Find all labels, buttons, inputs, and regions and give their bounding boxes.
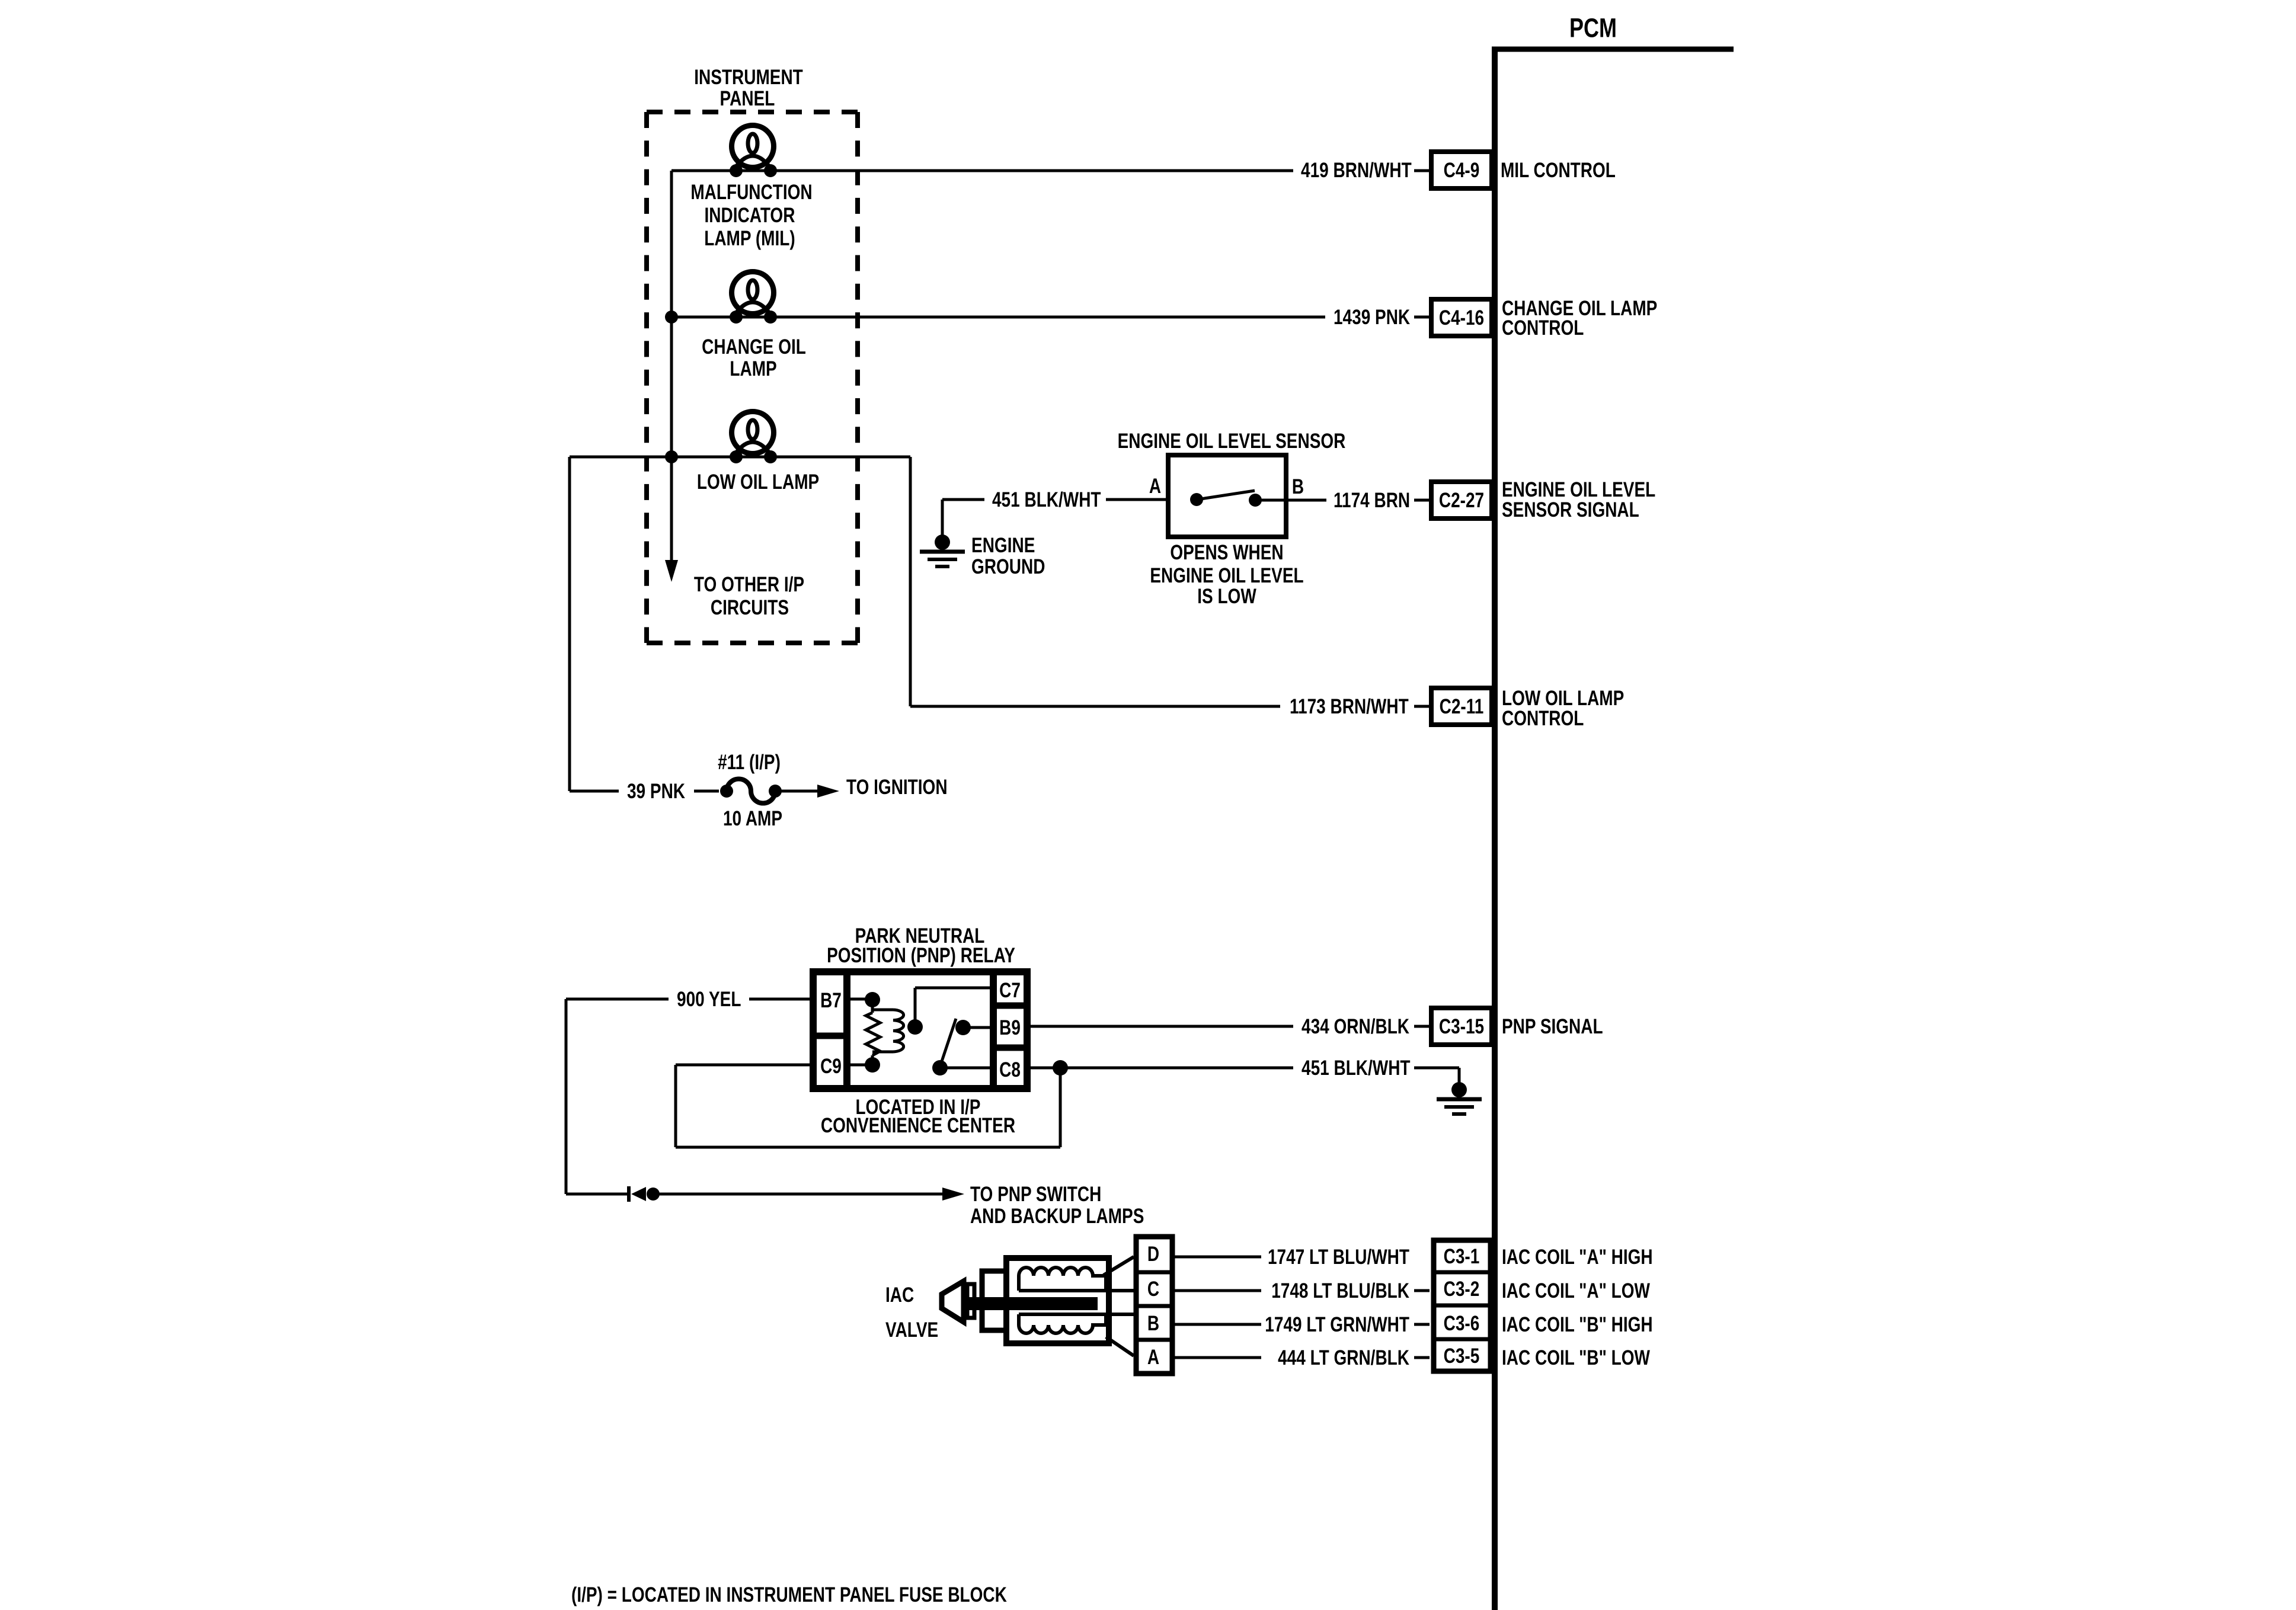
svg-text:C4-16: C4-16 [1439,306,1484,329]
svg-text:CONTROL: CONTROL [1502,316,1584,340]
svg-text:419 BRN/WHT: 419 BRN/WHT [1301,158,1412,182]
svg-text:TO OTHER I/P: TO OTHER I/P [694,572,804,596]
IAC valve stem [968,1297,1098,1310]
svg-text:IAC COIL "B" LOW: IAC COIL "B" LOW [1502,1346,1650,1369]
wire 39 PNK feed [568,457,571,791]
svg-text:C3-2: C3-2 [1444,1277,1480,1301]
wire 1748 LT BLU/BLK [1175,1289,1261,1292]
svg-text:C3-15: C3-15 [1439,1014,1484,1038]
wire C9 coil return loop [676,1064,813,1067]
svg-text:CIRCUITS: CIRCUITS [711,596,789,619]
svg-text:A: A [1149,474,1161,498]
wire 900 YEL [566,998,669,1001]
connector column C3 [1434,1240,1491,1371]
connector C3-15 [1431,1008,1492,1045]
lamp LOW OIL [732,412,774,454]
IAC valve pintle cone [942,1281,964,1322]
svg-text:B: B [1292,475,1304,498]
svg-text:LAMP: LAMP [730,357,776,380]
svg-text:900 YEL: 900 YEL [677,987,741,1011]
wire 444 LT GRN/BLK [1175,1356,1261,1359]
svg-text:IAC COIL "A" LOW: IAC COIL "A" LOW [1502,1279,1650,1302]
instrument panel dashed enclosure [647,112,858,643]
svg-text:OPENS WHEN: OPENS WHEN [1170,540,1283,564]
svg-text:PCM: PCM [1569,13,1617,43]
svg-text:C8: C8 [999,1058,1021,1081]
junction dot change-oil branch [665,311,678,324]
wire 1749 LT GRN/WHT [1175,1323,1261,1326]
wire 1439 PNK (change oil lamp) [671,316,1325,319]
svg-text:INDICATOR: INDICATOR [704,203,795,227]
svg-text:TO PNP SWITCH: TO PNP SWITCH [970,1182,1101,1206]
svg-text:CHANGE OIL: CHANGE OIL [702,335,806,359]
lamp MIL (malfunction indicator lamp) [732,126,774,168]
lamp CHANGE OIL [732,272,774,314]
IAC valve flange [982,1271,1006,1330]
svg-text:1173 BRN/WHT: 1173 BRN/WHT [1290,694,1409,718]
svg-text:C9: C9 [820,1054,842,1078]
svg-text:C2-11: C2-11 [1440,694,1484,718]
svg-text:#11 (I/P): #11 (I/P) [718,750,781,774]
svg-text:IAC COIL "B" HIGH: IAC COIL "B" HIGH [1502,1313,1653,1336]
svg-text:C3-1: C3-1 [1444,1244,1480,1268]
svg-text:451 BLK/WHT: 451 BLK/WHT [992,488,1101,511]
relay switch [915,987,993,990]
svg-text:451 BLK/WHT: 451 BLK/WHT [1302,1056,1411,1080]
IAC valve washer [967,1284,974,1318]
svg-text:D: D [1147,1242,1159,1266]
svg-text:MALFUNCTION: MALFUNCTION [690,180,812,204]
bus vertical inside instrument panel [670,171,673,562]
connector C2-27 [1431,482,1492,518]
wire 419 BRN/WHT (MIL control) [671,169,1293,172]
wire 1174 BRN [1255,499,1326,502]
connector C4-16 [1431,299,1492,336]
svg-text:IAC: IAC [885,1283,914,1307]
engine ground symbol [935,534,950,550]
svg-text:ENGINE OIL LEVEL: ENGINE OIL LEVEL [1150,564,1303,587]
connector C4-9 [1431,152,1492,188]
svg-text:10 AMP: 10 AMP [723,806,782,830]
IAC coil A (top) [1019,1267,1106,1291]
wire coil A high to pin D [1104,1257,1134,1275]
svg-text:(I/P) = LOCATED IN INSTRUMENT: (I/P) = LOCATED IN INSTRUMENT PANEL FUSE… [571,1583,1007,1606]
svg-text:POSITION (PNP) RELAY: POSITION (PNP) RELAY [827,943,1015,967]
sensor switch contact A [1190,493,1203,506]
svg-text:1439 PNK: 1439 PNK [1334,305,1410,329]
svg-text:ENGINE: ENGINE [971,533,1035,557]
svg-text:AND BACKUP LAMPS: AND BACKUP LAMPS [970,1204,1144,1228]
svg-text:SENSOR SIGNAL: SENSOR SIGNAL [1502,498,1639,521]
svg-text:A: A [1147,1345,1159,1369]
ground at PCM side [1451,1082,1467,1097]
fuse #11 10 AMP [720,785,733,798]
PCM module boundary line [1492,47,1734,52]
svg-text:B7: B7 [820,988,842,1012]
IAC coil housing [1006,1258,1109,1343]
IAC coil B (bottom) [1019,1314,1106,1333]
svg-text:MIL CONTROL: MIL CONTROL [1501,158,1616,182]
wire 451 BLK/WHT into sensor pin A [1106,498,1197,501]
junction dot low-oil branch [665,450,678,463]
engine oil level sensor box [1168,455,1286,537]
svg-text:CONTROL: CONTROL [1502,706,1584,730]
svg-text:C3-5: C3-5 [1444,1344,1480,1368]
svg-text:IS LOW: IS LOW [1197,584,1256,608]
wire low oil lamp row [570,456,910,459]
svg-text:C4-9: C4-9 [1444,158,1480,182]
svg-text:PNP SIGNAL: PNP SIGNAL [1502,1014,1603,1038]
diode [627,1186,631,1202]
svg-text:B: B [1147,1311,1159,1335]
sensor switch blade [1201,491,1255,499]
IAC connector pin column [1136,1237,1172,1374]
svg-text:C7: C7 [999,978,1021,1002]
svg-text:39 PNK: 39 PNK [627,779,685,803]
sensor switch contact B [1249,494,1262,507]
C3 column dividers [1434,1270,1491,1275]
wire coil B low to pin A [1106,1337,1134,1356]
pin cell dividers [1136,1270,1172,1275]
svg-text:1748 LT BLU/BLK: 1748 LT BLU/BLK [1271,1279,1409,1302]
arrow to ignition [775,790,819,793]
svg-text:1174 BRN: 1174 BRN [1334,488,1410,512]
wire low-oil lamp to PCM (1173 BRN/WHT) [909,457,912,706]
svg-text:LAMP (MIL): LAMP (MIL) [704,226,795,250]
PNP relay outline [813,972,1027,1089]
svg-text:C2-27: C2-27 [1439,488,1484,512]
svg-text:LOW OIL LAMP: LOW OIL LAMP [697,470,819,494]
svg-text:B9: B9 [999,1016,1021,1039]
svg-text:444 LT GRN/BLK: 444 LT GRN/BLK [1278,1346,1409,1369]
svg-text:PANEL: PANEL [720,87,775,110]
svg-text:C3-6: C3-6 [1444,1311,1480,1335]
wire 451 BLK/WHT from C8 [1027,1067,1293,1070]
svg-text:GROUND: GROUND [971,555,1045,578]
svg-text:C: C [1147,1277,1159,1301]
arrow to other I/P circuits [665,560,678,582]
svg-text:434 ORN/BLK: 434 ORN/BLK [1302,1014,1409,1038]
svg-text:VALVE: VALVE [885,1318,938,1342]
wire 1747 LT BLU/WHT [1175,1256,1261,1259]
svg-text:TO IGNITION: TO IGNITION [846,775,948,799]
wire to PNP switch and backup lamps [566,1193,627,1196]
wire 434 ORN/BLK (PNP signal) [1027,1025,1293,1028]
svg-text:ENGINE OIL LEVEL SENSOR: ENGINE OIL LEVEL SENSOR [1118,429,1346,453]
connector C2-11 [1431,688,1492,725]
wire 451 BLK/WHT to engine ground [942,498,984,501]
junction dot C8/C9 loop [1053,1060,1068,1076]
relay coil [847,998,866,1001]
svg-text:1747 LT BLU/WHT: 1747 LT BLU/WHT [1268,1245,1410,1269]
svg-text:CONVENIENCE CENTER: CONVENIENCE CENTER [821,1113,1015,1137]
relay pin column dividers [843,972,850,1089]
svg-text:IAC COIL "A" HIGH: IAC COIL "A" HIGH [1502,1245,1653,1269]
svg-text:INSTRUMENT: INSTRUMENT [694,65,803,89]
svg-text:1749 LT GRN/WHT: 1749 LT GRN/WHT [1265,1313,1409,1336]
